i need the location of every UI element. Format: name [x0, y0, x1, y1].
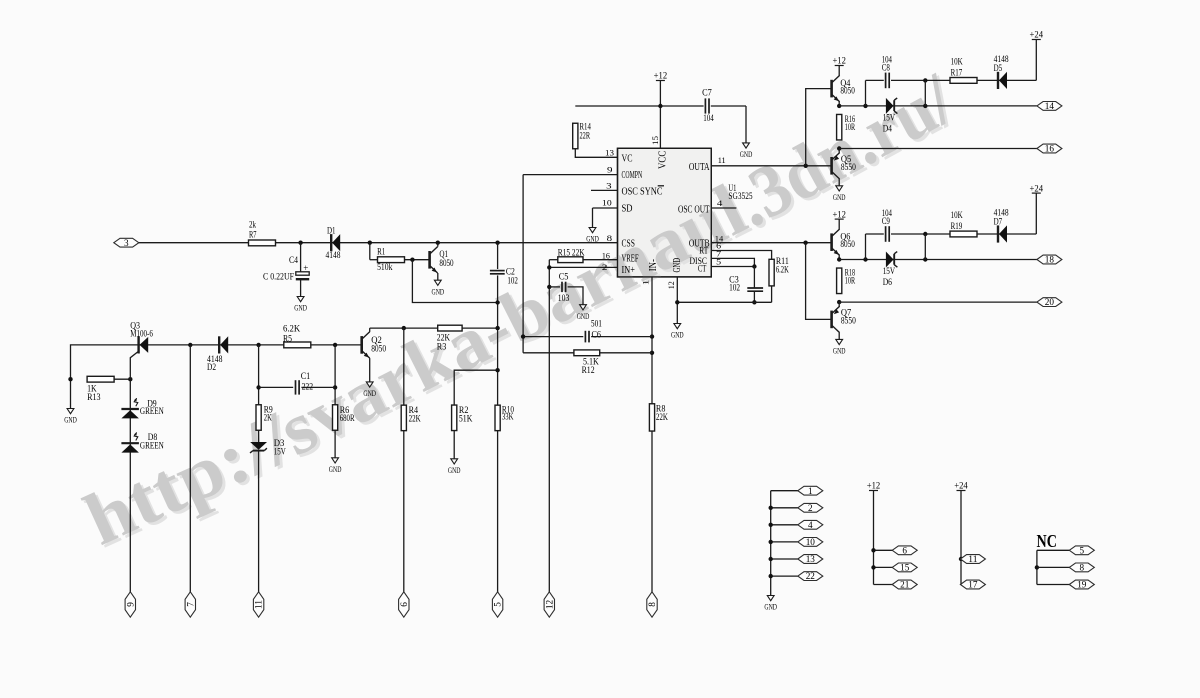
connector 22 — [771, 575, 798, 577]
wire Q1 base node to lower rail — [412, 260, 497, 303]
svg-text:22K: 22K — [656, 412, 668, 422]
svg-text:GND: GND — [740, 149, 753, 159]
capacitor C3 102 — [753, 267, 755, 288]
connector 20 — [1037, 298, 1062, 307]
connector 19 — [1037, 584, 1070, 586]
node junction R12 right — [650, 351, 654, 355]
node junction cap right — [923, 257, 927, 261]
connector 4 — [771, 524, 798, 526]
svg-text:GND: GND — [833, 346, 846, 356]
wire pin 7 DISC — [711, 258, 754, 266]
connector 17 — [960, 580, 985, 589]
diode D2 4148 — [218, 336, 220, 353]
svg-text:15: 15 — [900, 563, 910, 573]
node junction C1 right — [333, 385, 337, 389]
svg-text:11: 11 — [718, 155, 726, 165]
resistor R16 10R — [837, 114, 842, 140]
svg-text:13: 13 — [605, 148, 615, 158]
svg-text:8550: 8550 — [841, 162, 856, 172]
wire pin 5 CT — [711, 266, 754, 268]
resistor R11 6.2K — [769, 259, 774, 286]
node junction C4/R7 — [298, 241, 302, 245]
node junction R1 tap — [368, 241, 372, 245]
wire R8 to connector 8 — [651, 431, 653, 592]
resistor R1 510k — [378, 257, 405, 263]
capacitor C6 501 — [523, 336, 583, 338]
svg-text:5: 5 — [716, 256, 722, 266]
svg-text:R5: R5 — [283, 333, 292, 343]
wire R6 column — [334, 345, 336, 405]
svg-text:GND: GND — [672, 258, 683, 273]
svg-text:33K: 33K — [502, 412, 514, 422]
svg-text:10K: 10K — [951, 210, 963, 220]
LED D9 GREEN — [121, 409, 138, 418]
svg-text:3: 3 — [124, 238, 129, 248]
wire R2 branch — [454, 370, 497, 405]
connector 5 — [492, 592, 502, 617]
LED D8 GREEN — [121, 443, 138, 452]
op-amp U1 frame — [618, 148, 712, 277]
resistor R19 10K — [950, 231, 977, 237]
svg-text:13: 13 — [806, 554, 816, 564]
svg-text:15: 15 — [650, 135, 660, 145]
svg-text:GREEN: GREEN — [140, 440, 164, 450]
connector 5 NC — [1037, 549, 1070, 551]
svg-text:2K: 2K — [264, 412, 272, 422]
transistor Q4 8050 — [830, 80, 833, 98]
svg-text:102: 102 — [507, 275, 518, 285]
connector 18 — [1037, 255, 1062, 264]
svg-text:10R: 10R — [845, 122, 855, 132]
zener diode D6 15V — [886, 252, 894, 268]
svg-text:103: 103 — [558, 293, 570, 303]
svg-text:16: 16 — [1045, 144, 1055, 154]
ground connector group — [767, 596, 774, 601]
transistor Q7 8550 — [838, 302, 840, 307]
resistor R7 — [249, 240, 276, 246]
wire pin 6 RT to R11 — [711, 251, 771, 260]
svg-text:C5: C5 — [559, 271, 569, 281]
wire R4 to connector 6 — [403, 430, 405, 592]
svg-text:501: 501 — [591, 319, 602, 329]
wire C7 to ground — [745, 106, 747, 143]
node junction OUTB split — [803, 241, 807, 245]
resistor R12 5.1K — [523, 352, 574, 354]
node junction C1 left — [256, 385, 260, 389]
node junction Q4 emitter — [838, 101, 840, 106]
node junction C2 top — [495, 241, 499, 245]
svg-text:R17: R17 — [951, 68, 963, 78]
svg-text:14: 14 — [1045, 101, 1055, 111]
svg-text:C4: C4 — [289, 255, 298, 265]
connector 16 — [1037, 144, 1062, 153]
thyristor Q3 M100-6 — [137, 336, 139, 353]
resistor R18 10R — [837, 268, 842, 294]
diode D1 4148 — [330, 234, 332, 251]
op-amp U1 SG3525 body — [618, 148, 712, 277]
svg-text:15V: 15V — [883, 266, 896, 276]
ground Q2 emitter — [366, 382, 373, 387]
svg-text:R15 22K: R15 22K — [558, 247, 585, 257]
svg-text:7: 7 — [185, 602, 195, 607]
svg-text:15V: 15V — [274, 447, 286, 457]
capacitor C2 102 — [497, 243, 499, 269]
svg-text:COMPN: COMPN — [622, 170, 643, 181]
svg-text:SG3525: SG3525 — [728, 192, 752, 202]
svg-text:+12: +12 — [867, 482, 881, 492]
node junction C3 bottom — [752, 300, 756, 304]
ground R2 — [451, 459, 458, 464]
wire C2 column down — [497, 303, 499, 406]
transistor Q5 8550 — [838, 149, 840, 154]
resistor R13 1K — [87, 376, 114, 382]
node junction R16 bottom — [837, 146, 841, 150]
svg-text:R12: R12 — [582, 365, 595, 375]
connector 2 — [771, 507, 798, 509]
resistor R9 2K — [256, 405, 261, 431]
svg-text:GND: GND — [64, 415, 77, 425]
svg-text:8050: 8050 — [439, 258, 454, 268]
node junction C6 left — [521, 334, 525, 338]
svg-text:R3: R3 — [437, 341, 447, 351]
capacitor C5 103 — [549, 286, 560, 288]
svg-text:6.2K: 6.2K — [776, 264, 789, 274]
connector 7 — [185, 592, 195, 617]
capacitor C9 104 — [865, 234, 867, 260]
transistor Q1 8050 — [428, 251, 431, 269]
connector 11 — [253, 592, 263, 617]
svg-text:GND: GND — [329, 464, 342, 474]
svg-text:C 0.22UF: C 0.22UF — [263, 272, 294, 282]
wire pin 2 IN+ — [549, 266, 617, 268]
connector 6 — [399, 592, 409, 617]
wire emitter line — [839, 259, 1037, 261]
connector 1 — [771, 490, 798, 492]
wire main top net y=242.7 — [139, 242, 618, 244]
svg-text:12: 12 — [544, 599, 554, 609]
wire OUTB to Q7 base — [806, 243, 831, 320]
svg-text:IN-: IN- — [648, 259, 659, 272]
node junction R3 right — [495, 326, 499, 330]
resistor R3 22K — [438, 325, 462, 331]
ground Q1 emitter — [434, 280, 441, 285]
svg-text:8: 8 — [607, 233, 613, 243]
capacitor C8 104 — [865, 80, 867, 106]
svg-text:10K: 10K — [951, 56, 963, 66]
svg-text:22R: 22R — [580, 130, 591, 140]
connector 11 output — [959, 557, 963, 561]
svg-text:GND: GND — [577, 311, 590, 321]
transistor Q2 8050 — [360, 336, 363, 354]
svg-text:51K: 51K — [459, 414, 473, 424]
svg-text:D2: D2 — [207, 362, 216, 372]
svg-text:OSC OUT: OSC OUT — [678, 204, 710, 215]
svg-text:8050: 8050 — [840, 239, 855, 249]
power +12 Q4 — [835, 65, 844, 67]
svg-text:2: 2 — [808, 503, 813, 513]
zener diode D4 15V — [886, 98, 894, 114]
diode D7 4148 — [997, 225, 999, 242]
wire COMPN column — [522, 175, 524, 353]
node junction pin12 — [675, 300, 679, 304]
wire to connector 7 — [189, 345, 191, 592]
ground C4 — [297, 297, 304, 302]
node junction IN+ — [547, 265, 551, 269]
svg-text:+24: +24 — [1030, 184, 1044, 194]
resistor R15 22K — [549, 259, 558, 261]
svg-text:11: 11 — [968, 554, 978, 564]
svg-text:D7: D7 — [994, 217, 1003, 227]
wire pin 3 OSC SYNC stub — [591, 189, 618, 191]
zener diode D3 15V — [258, 430, 260, 442]
svg-text:R19: R19 — [951, 221, 963, 231]
svg-text:10: 10 — [806, 537, 816, 547]
wire gate column / LED chain to connector 9 — [129, 379, 131, 592]
svg-text:104: 104 — [703, 113, 714, 123]
svg-text:GND: GND — [764, 602, 777, 612]
svg-text:VREF: VREF — [622, 254, 639, 265]
node junction connector7 tap — [188, 343, 192, 347]
resistor R8 22K — [649, 404, 654, 431]
node junction C6 right — [650, 334, 654, 338]
watermark — [73, 58, 971, 564]
wire pin 11 OUTA — [711, 165, 830, 167]
node junction R13 left — [68, 377, 72, 381]
wire R6 to ground — [334, 430, 336, 458]
capacitor C1 222 — [259, 386, 294, 388]
svg-text:GND: GND — [671, 330, 684, 340]
ground Q5 — [836, 186, 843, 191]
node junction Q1 collector — [436, 241, 440, 245]
power +12 connector group — [869, 490, 878, 492]
node junction R2/R10 — [495, 368, 499, 372]
svg-text:VCC: VCC — [658, 151, 669, 169]
wire pin 10 SD to ground — [593, 207, 618, 209]
svg-text:4148: 4148 — [326, 250, 341, 260]
ground C5 — [580, 305, 587, 310]
wire VCC horizontal — [575, 105, 703, 107]
wire pin 9 COMPN — [523, 174, 617, 176]
connector 14 — [1037, 102, 1062, 111]
node junction R4 top — [402, 326, 406, 330]
svg-text:D1: D1 — [327, 225, 336, 235]
node junction top line — [923, 78, 927, 82]
wire R4 column — [403, 328, 405, 405]
svg-text:C7: C7 — [702, 87, 712, 97]
svg-text:18: 18 — [1045, 255, 1055, 265]
svg-text:10R: 10R — [845, 275, 855, 285]
svg-text:GND: GND — [586, 234, 599, 244]
svg-text:D4: D4 — [883, 123, 893, 133]
svg-text:IN+: IN+ — [622, 265, 635, 276]
svg-text:C9: C9 — [882, 216, 891, 226]
svg-text:VC: VC — [622, 154, 633, 165]
svg-text:5: 5 — [493, 602, 503, 607]
power +24 connector group — [957, 490, 966, 492]
resistor R17 10K — [950, 78, 977, 84]
wire R10 to connector 5 — [497, 430, 499, 592]
svg-text:+: + — [303, 263, 308, 273]
ground R6 — [332, 458, 339, 463]
svg-text:GND: GND — [432, 286, 445, 296]
svg-text:GREEN: GREEN — [140, 406, 164, 416]
svg-text:R7: R7 — [249, 229, 257, 239]
svg-text:1: 1 — [641, 280, 651, 286]
svg-text:12: 12 — [666, 281, 676, 289]
node junction R13 right gate — [128, 377, 132, 381]
wire to connector 16 — [839, 148, 1037, 150]
diode D5 4148 — [997, 72, 999, 89]
resistor R4 22K — [401, 405, 406, 431]
connector 6 — [874, 549, 894, 551]
wire to connector 20 — [839, 301, 1037, 303]
connector 8 — [647, 592, 657, 617]
svg-text:+12: +12 — [654, 72, 668, 82]
connector 15 — [874, 566, 894, 568]
resistor R14 — [573, 123, 578, 149]
power +24 D7 — [1032, 192, 1041, 194]
svg-text:2: 2 — [602, 262, 608, 272]
svg-text:GND: GND — [363, 388, 376, 398]
wire R1 branch — [369, 243, 371, 260]
resistor R6 680R — [333, 405, 338, 431]
wire pin 12 GND net — [676, 277, 678, 302]
svg-text:16: 16 — [602, 251, 611, 261]
transistor Q6 8050 — [830, 233, 833, 251]
wire R3 net y=328.1 — [370, 327, 498, 329]
svg-text:C1: C1 — [301, 371, 311, 381]
svg-text:NC: NC — [1037, 531, 1057, 551]
connector 21 — [874, 584, 894, 586]
svg-text:8050: 8050 — [371, 344, 386, 354]
node junction cap left — [863, 104, 867, 108]
ground C7 — [743, 143, 750, 148]
svg-text:CSS: CSS — [622, 238, 635, 249]
svg-text:D5: D5 — [994, 63, 1003, 73]
connector 12 — [544, 592, 554, 617]
ground Q7 — [836, 339, 843, 344]
svg-text:8: 8 — [647, 602, 657, 607]
svg-text:4: 4 — [717, 198, 723, 208]
resistor R5 6.2K — [284, 342, 311, 348]
wire OUTA to Q4 base — [806, 89, 831, 166]
svg-text:8050: 8050 — [840, 86, 855, 96]
node junction cap right — [923, 104, 927, 108]
svg-text:GND: GND — [294, 303, 307, 313]
svg-text:22K: 22K — [409, 414, 421, 424]
svg-text:102: 102 — [729, 283, 740, 293]
resistor R2 51K — [452, 405, 457, 431]
connector 9 — [125, 592, 135, 617]
svg-text:OSC SYNC: OSC SYNC — [622, 187, 663, 198]
wire pin 4 OSC OUT stub — [711, 207, 736, 209]
wire R2 to ground — [453, 430, 455, 459]
wire IN+ column to connector 12 — [548, 260, 550, 592]
svg-text:510k: 510k — [377, 262, 393, 272]
svg-text:9: 9 — [607, 165, 613, 175]
svg-text:8550: 8550 — [841, 316, 856, 326]
capacitor C4 0.22UF — [300, 243, 302, 273]
svg-text:9: 9 — [125, 602, 135, 607]
svg-text:GND: GND — [448, 465, 461, 475]
svg-text:+12: +12 — [832, 210, 846, 220]
ground SD — [589, 228, 596, 233]
svg-text:22: 22 — [806, 571, 816, 581]
wire pin 14 OUTB — [711, 242, 830, 244]
wire D3 to connector 11 — [258, 452, 260, 593]
node junction R9 top — [256, 343, 260, 347]
svg-text:C8: C8 — [882, 62, 891, 72]
power +12 VCC rail — [656, 80, 665, 82]
svg-text:CT: CT — [698, 264, 706, 275]
svg-text:M100-6: M100-6 — [130, 328, 153, 338]
connector 13 — [771, 558, 798, 560]
svg-text:+24: +24 — [954, 482, 968, 492]
svg-text:8: 8 — [1080, 563, 1085, 573]
connector 10 — [771, 541, 798, 543]
svg-text:1: 1 — [808, 486, 813, 496]
svg-text:4: 4 — [808, 520, 813, 530]
wire lower main net y=344.9 — [71, 345, 361, 409]
svg-text:15V: 15V — [883, 113, 896, 123]
node junction cap left — [863, 257, 867, 261]
svg-text:6: 6 — [902, 545, 907, 555]
wire R9 column — [258, 345, 260, 405]
resistor R10 33K — [495, 405, 500, 431]
svg-text:SD: SD — [622, 204, 633, 215]
node junction DISC/CT — [752, 264, 756, 268]
svg-text:+24: +24 — [1030, 31, 1044, 41]
connector 8 NC — [1035, 565, 1039, 569]
node junction C2 bottom — [495, 300, 499, 304]
wire emitter line — [839, 105, 1037, 107]
svg-text:11: 11 — [254, 599, 264, 609]
svg-text:+12: +12 — [832, 57, 846, 67]
node junction R1/Q1 base — [410, 258, 414, 262]
svg-text:222: 222 — [302, 381, 314, 391]
svg-text:19: 19 — [1077, 580, 1087, 590]
svg-text:10: 10 — [602, 198, 612, 208]
node junction Q6 emitter — [838, 255, 840, 260]
svg-text:GND: GND — [833, 192, 846, 202]
IC internal labels — [622, 151, 710, 277]
svg-text:20: 20 — [1045, 297, 1055, 307]
node junction OUTA split — [804, 164, 808, 168]
power +12 Q6 — [835, 218, 844, 220]
wire ground connector group — [770, 491, 772, 596]
connector 3 — [114, 238, 139, 247]
svg-text:3: 3 — [606, 181, 612, 191]
svg-text:6: 6 — [399, 602, 409, 607]
node junction C5 tap — [547, 285, 551, 289]
ground left rail — [67, 409, 74, 414]
wire pin 1 IN- column — [651, 277, 653, 404]
capacitor C7 104 — [704, 98, 706, 113]
svg-text:5: 5 — [1080, 545, 1085, 555]
svg-text:OUTA: OUTA — [689, 162, 710, 173]
wire pin 13 VC / resistor R14 22R — [574, 123, 576, 149]
svg-text:6.2K: 6.2K — [283, 324, 301, 334]
node junction R18 bottom — [837, 300, 841, 304]
svg-text:2k: 2k — [249, 220, 256, 230]
node junction top line — [923, 232, 927, 236]
power +24 D5 — [1032, 39, 1041, 41]
svg-text:C6: C6 — [592, 330, 602, 340]
svg-text:21: 21 — [900, 580, 910, 590]
ground IC pin 12 — [674, 324, 681, 329]
svg-text:D6: D6 — [883, 277, 893, 287]
svg-text:680R: 680R — [340, 413, 355, 423]
